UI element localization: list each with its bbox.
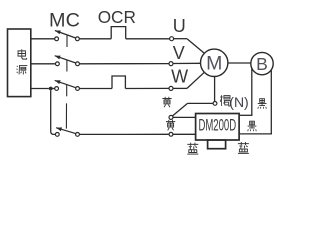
svg-text:M: M <box>206 53 222 75</box>
svg-text:B: B <box>256 54 268 74</box>
svg-text:V: V <box>173 43 185 63</box>
svg-text:MC: MC <box>49 9 80 31</box>
svg-text:OCR: OCR <box>98 7 136 27</box>
svg-text:(N): (N) <box>229 94 248 110</box>
svg-text:DM200D: DM200D <box>198 116 236 134</box>
svg-text:W: W <box>171 67 188 87</box>
svg-text:U: U <box>173 16 186 36</box>
